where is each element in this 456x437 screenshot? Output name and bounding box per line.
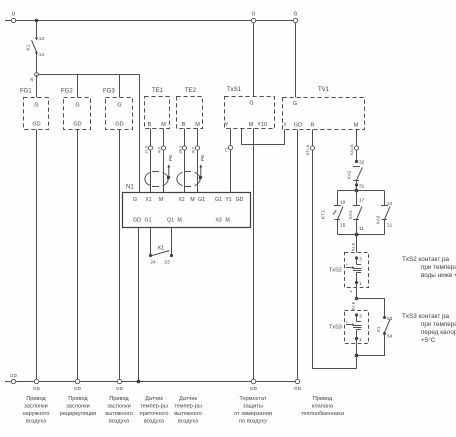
wire TV1 G feed (295, 23, 297, 98)
svg-text:от замерзания: от замерзания (234, 411, 272, 417)
wire K1 branch upper (357, 299, 385, 318)
node shield tap 188.5 (199, 176, 202, 179)
svg-text:GD: GD (73, 122, 81, 128)
wire TV1 GD to ground bus (297, 130, 299, 382)
wire TxS1 G feed (253, 23, 255, 97)
svg-text:KA1: KA1 (348, 210, 353, 219)
svg-text:X2: X2 (178, 197, 184, 203)
svg-text:KT1: KT1 (321, 210, 327, 219)
svg-text:*: * (350, 291, 352, 297)
svg-text:U: U (12, 12, 16, 18)
wire parallel top rail (338, 190, 385, 192)
wire TE1 B to N1 (150, 129, 152, 193)
svg-text:G: G (293, 101, 297, 107)
svg-text:M: M (249, 122, 254, 128)
wire K1 bottom lead (36, 54, 38, 75)
svg-text:B: B (182, 122, 186, 128)
svg-text:G: G (117, 103, 121, 109)
svg-text:GD: GD (116, 386, 124, 391)
node GD terminal 253.5 (251, 379, 255, 383)
contact KA1 (356, 191, 358, 206)
svg-text:3: 3 (359, 314, 362, 320)
svg-text:воздуха: воздуха (144, 419, 165, 425)
svg-text:t: t (347, 263, 348, 267)
svg-text:21: 21 (387, 223, 393, 229)
svg-text:TV1: TV1 (318, 87, 330, 93)
svg-text:M: M (190, 197, 194, 203)
contact KT1 (337, 191, 339, 206)
svg-text:G1: G1 (145, 218, 152, 224)
svg-text:Датчик: Датчик (179, 396, 197, 402)
svg-text:Датчик: Датчик (145, 396, 163, 402)
svg-text:Y1: Y1 (225, 148, 229, 153)
svg-text:Привод: Привод (68, 396, 88, 402)
node test point M wire (354, 146, 358, 150)
svg-text:FG3: FG3 (103, 89, 115, 95)
svg-text:защиты: защиты (243, 404, 263, 410)
svg-text:наружного: наружного (22, 411, 49, 417)
svg-text:GD: GD (133, 218, 141, 224)
svg-text:Привод: Привод (313, 396, 333, 402)
wire TV1 R down and return (313, 130, 357, 369)
svg-text:14: 14 (39, 52, 45, 58)
wire K1 bypass return (357, 334, 385, 356)
svg-text:K1: K1 (26, 44, 32, 50)
svg-text:1B: 1B (30, 77, 34, 82)
svg-text:17: 17 (359, 198, 365, 204)
svg-text:G: G (34, 103, 38, 109)
node GD terminal 119.5 (117, 379, 121, 383)
svg-text:2Б.0: 2Б.0 (179, 146, 183, 154)
svg-text:M: M (354, 123, 359, 129)
svg-text:M: M (225, 218, 229, 224)
wire FG1 to ground bus (36, 130, 38, 382)
svg-text:24: 24 (387, 201, 393, 207)
svg-text:KA2: KA2 (347, 170, 352, 179)
node GD terminal left end (11, 379, 15, 383)
svg-text:GD: GD (294, 123, 302, 129)
node test point 163.5 (161, 146, 165, 150)
node U terminal left (11, 18, 15, 22)
svg-text:23: 23 (164, 260, 170, 266)
wire join to R return (356, 356, 358, 369)
wire to TxS2 (356, 235, 358, 253)
wire FG2 to ground bus (77, 130, 79, 382)
svg-text:воздуха: воздуха (26, 419, 47, 425)
svg-text:вытяжного: вытяжного (105, 411, 133, 417)
svg-text:PE: PE (200, 155, 206, 161)
svg-text:1: 1 (359, 337, 362, 343)
svg-text:15: 15 (340, 223, 346, 229)
svg-text:PE: PE (168, 155, 174, 161)
svg-text:KT1.Б: KT1.Б (306, 144, 310, 155)
svg-text:GD: GD (33, 386, 41, 391)
wire N1 GD to ground bus (138, 228, 140, 382)
wire TE2 M to N1 (197, 129, 199, 193)
svg-text:Q1: Q1 (167, 218, 174, 224)
wire FG3 feed (119, 75, 121, 98)
svg-text:GD: GD (32, 122, 40, 128)
svg-text:1: 1 (359, 281, 362, 287)
node junction at K1 feed (35, 19, 39, 23)
svg-text:54: 54 (387, 334, 393, 340)
wire top supply bus (5, 20, 296, 22)
node join TxS3 K1 (355, 354, 359, 358)
contact KA3 (384, 191, 386, 206)
node parallel top (355, 189, 359, 193)
svg-text:Y: Y (225, 122, 229, 128)
svg-text:K1: K1 (158, 246, 164, 252)
node test point TxS1 Y (228, 145, 232, 149)
wire TE2 B to N1 (184, 129, 186, 193)
svg-text:теплообменника: теплообменника (301, 411, 345, 417)
wire TE1 M to N1 (163, 129, 165, 193)
node TxS1 G terminal on bus (251, 18, 255, 22)
wire TxS1 Y10 to TV1 Y (242, 129, 285, 145)
svg-text:TE1: TE1 (152, 88, 164, 94)
node GD terminal 36.5 (34, 379, 38, 383)
svg-text:K2.Б: K2.Б (352, 301, 356, 310)
wire TxS3 to join (356, 339, 358, 356)
svg-text:TxS3 контакт ра: TxS3 контакт ра (402, 313, 450, 320)
svg-text:приточного: приточного (140, 411, 169, 417)
wire K1 top lead (36, 21, 38, 39)
svg-text:TxS3: TxS3 (329, 325, 342, 331)
svg-text:19: 19 (340, 200, 346, 206)
svg-text:воздуха: воздуха (178, 419, 199, 425)
svg-text:Y1: Y1 (225, 197, 231, 203)
svg-text:Y10: Y10 (257, 122, 267, 128)
svg-text:X1: X1 (145, 197, 151, 203)
svg-text:M: M (161, 122, 166, 128)
wire N1 G1 lead (150, 228, 152, 255)
svg-text:G: G (75, 103, 79, 109)
svg-text:заслонки: заслонки (107, 404, 131, 410)
wire distribution line (38, 74, 140, 76)
svg-text:21.0: 21.0 (145, 146, 149, 153)
svg-text:при температу: при температу (421, 321, 456, 328)
svg-text:при температу: при температу (421, 264, 456, 271)
svg-text:Ж.0: Ж.0 (192, 147, 196, 154)
node K1 branch split (355, 297, 358, 300)
node GD terminal 77.5 (75, 379, 79, 383)
svg-text:M: M (195, 122, 200, 128)
wire N1 Q1 lead (171, 228, 173, 255)
svg-text:Привод: Привод (26, 396, 46, 402)
node GD terminal 297.5 (295, 379, 299, 383)
wire TxS2 to split node (356, 283, 358, 299)
svg-text:TxS2: TxS2 (329, 268, 342, 274)
node parallel bottom (355, 233, 359, 237)
wire TV1 M down (356, 130, 358, 162)
svg-text:Y: Y (283, 123, 287, 129)
wire FG1 feed (36, 75, 38, 98)
svg-text:клапана: клапана (312, 404, 334, 410)
svg-text:воздуха: воздуха (109, 419, 130, 425)
svg-text:24: 24 (150, 260, 156, 266)
svg-text:GD: GD (236, 197, 244, 203)
svg-text:+5°С: +5°С (421, 336, 436, 344)
svg-text:K2.Б: K2.Б (352, 242, 356, 251)
svg-text:G: G (249, 101, 253, 107)
svg-text:3: 3 (359, 257, 362, 263)
svg-text:N1: N1 (126, 185, 134, 191)
svg-text:TxS2 контакт ра: TxS2 контакт ра (402, 256, 450, 263)
svg-text:вытяжного: вытяжного (174, 411, 202, 417)
svg-text:воды ниже +: воды ниже + (421, 272, 456, 279)
svg-text:GD: GD (115, 122, 123, 128)
svg-text:R: R (311, 123, 315, 129)
svg-text:M: M (177, 218, 181, 224)
svg-text:темпер-ры: темпер-ры (140, 404, 168, 410)
svg-text:G: G (294, 12, 298, 18)
cable shield pair 188.5 (177, 172, 183, 179)
cable shield pair 156.5 (145, 172, 151, 179)
svg-text:Ж.0: Ж.0 (158, 147, 162, 154)
svg-text:B: B (148, 122, 152, 128)
node test point 184.5 (182, 146, 186, 150)
controller N1 box (123, 193, 251, 228)
svg-text:M: M (159, 197, 163, 203)
svg-text:Привод: Привод (109, 396, 129, 402)
svg-text:G1: G1 (198, 197, 205, 203)
svg-text:TE2: TE2 (185, 88, 197, 94)
node distribution (35, 73, 39, 77)
svg-text:заслонки: заслонки (24, 404, 48, 410)
node test point 197.5 (195, 146, 199, 150)
wire N1 G feed from distribution (139, 75, 141, 193)
svg-text:FG1: FG1 (20, 89, 32, 95)
node test point R wire (310, 146, 314, 150)
contact K1 bypass (383, 316, 386, 319)
svg-text:G1: G1 (215, 197, 222, 203)
svg-text:31: 31 (359, 184, 365, 190)
svg-text:K1: K1 (376, 326, 381, 332)
svg-text:заслонки: заслонки (66, 404, 90, 410)
svg-text:G: G (252, 12, 256, 18)
svg-text:FG2: FG2 (61, 89, 73, 95)
wire TxS1 Y to N1 Y1 (230, 129, 232, 193)
wire parallel bottom rail (338, 234, 385, 236)
svg-text:GD: GD (294, 386, 302, 391)
svg-text:X3: X3 (215, 218, 221, 224)
wire FG3 to ground bus (119, 130, 121, 382)
svg-text:TxS1: TxS1 (227, 87, 242, 93)
svg-text:KA3: KA3 (376, 215, 381, 224)
svg-text:рециркуляции: рециркуляции (60, 411, 97, 417)
contact KA2 (355, 160, 358, 163)
node test point 150.5 (148, 146, 152, 150)
wire ground bus (5, 381, 299, 383)
svg-text:GD: GD (250, 386, 258, 391)
node shield tap 156.5 (167, 176, 170, 179)
node TV1 G terminal on bus (293, 18, 297, 22)
svg-text:по воздуху: по воздуху (239, 419, 267, 425)
wire TxS1 M to ground bus (253, 129, 255, 382)
contact K1 master (35, 38, 38, 41)
node junction N1 GD on bus (137, 380, 141, 384)
svg-text:GD: GD (10, 373, 18, 378)
svg-text:KA1.Б: KA1.Б (350, 144, 354, 155)
svg-text:GD: GD (74, 386, 82, 391)
svg-text:перед калори: перед калори (421, 329, 456, 336)
svg-text:G: G (133, 197, 137, 203)
svg-text:темпер-ры: темпер-ры (174, 404, 202, 410)
svg-text:t: t (347, 320, 348, 324)
svg-text:13: 13 (39, 36, 45, 42)
wire FG2 feed (77, 75, 79, 98)
svg-text:32: 32 (359, 160, 365, 166)
svg-text:11: 11 (359, 226, 364, 232)
svg-text:Термостат: Термостат (239, 396, 267, 402)
